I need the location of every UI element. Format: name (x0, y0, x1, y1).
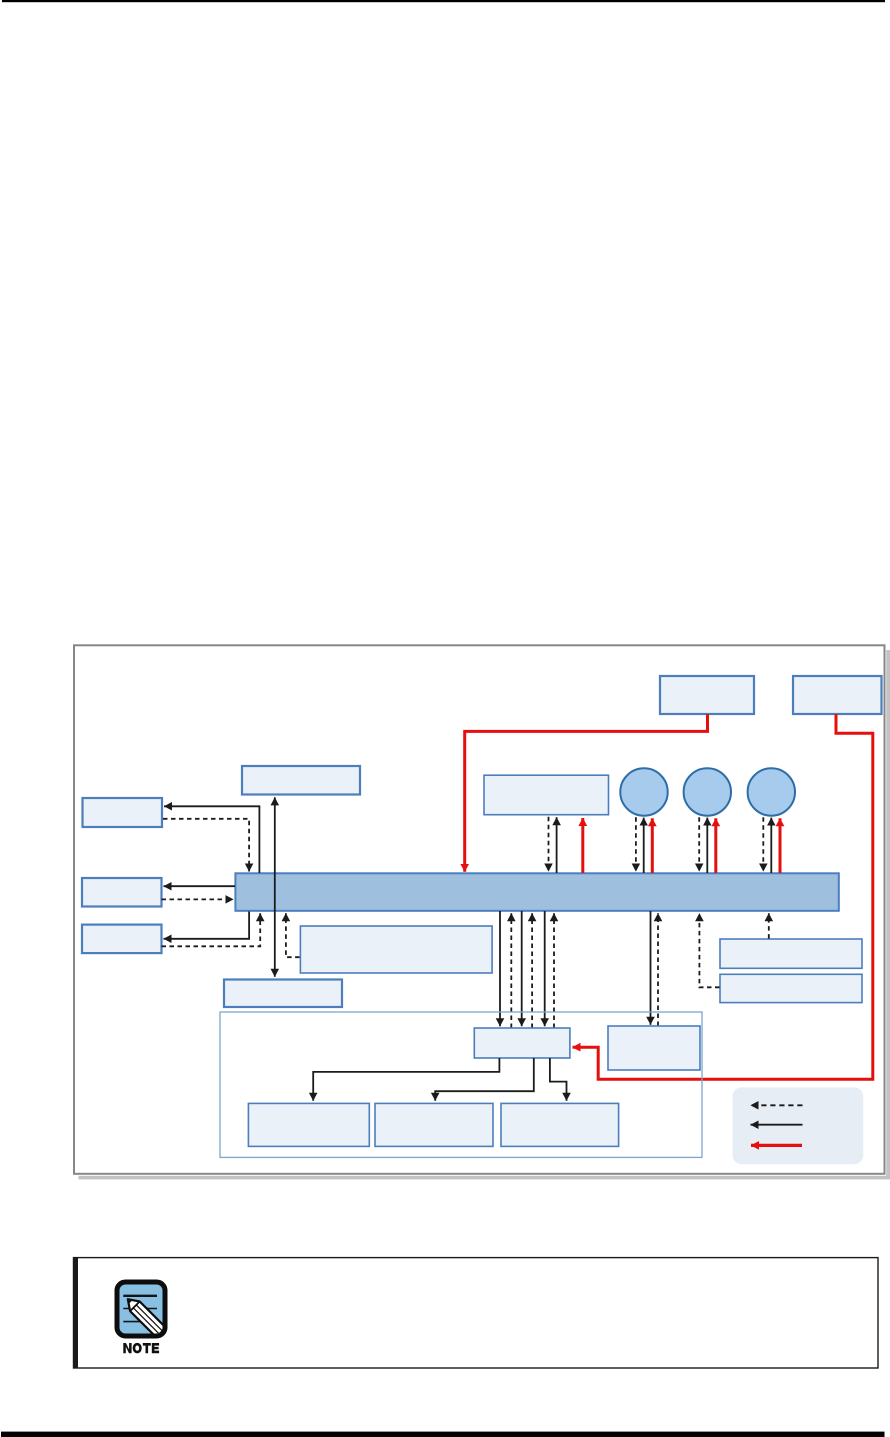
wire solid bus to C1 (643, 818, 645, 873)
box TC (upper center-left) (242, 766, 360, 795)
wire solid bus to M1 (556, 817, 558, 873)
wire red bus to C2 (714, 818, 717, 873)
wire solid bus to L3 (164, 912, 250, 939)
box M1 (above bus) (484, 775, 609, 815)
wire solid bus to L1 (164, 806, 259, 873)
note icon pad (117, 1282, 165, 1336)
box BA (bottom) (248, 1103, 369, 1146)
wire dashed RB to bus (657, 913, 659, 1026)
wire solid bus to SB 1 (499, 911, 501, 1026)
note icon frame (117, 1282, 165, 1336)
note label (123, 1343, 159, 1353)
note box left bar (73, 1257, 78, 1368)
box T2 (top right) (793, 676, 882, 714)
legend panel (733, 1087, 864, 1164)
bus bar (235, 873, 838, 911)
wire SB to BC (550, 1058, 567, 1101)
note icon ruled lines (123, 1295, 157, 1297)
circle C1 (620, 768, 667, 815)
note icon pencil (128, 1299, 166, 1337)
diagram frame shadow (886, 650, 890, 1179)
red wire from T1 to bus (465, 714, 708, 872)
wire red bus to C1 (651, 818, 654, 873)
group box (220, 1012, 702, 1157)
box L3 (left) (82, 925, 162, 954)
box T1 (top) (660, 676, 754, 714)
red wire from T2 to processor box (573, 714, 873, 1079)
note box (74, 1258, 879, 1368)
wire dashed C2 to bus (698, 817, 700, 871)
diagram frame (74, 645, 885, 1174)
wire SB to BB (435, 1058, 534, 1101)
wire solid bus to L2 (164, 885, 236, 887)
circle C3 (748, 768, 795, 815)
box R1 (right of bus) (720, 939, 862, 968)
wire dashed R2 to bus (699, 913, 719, 987)
wire dashed SB to bus 1 (510, 913, 512, 1028)
wire solid bus to SB 2 (521, 911, 523, 1026)
box M2 (below bus wide) (300, 926, 492, 973)
box L2 (left) (82, 878, 162, 907)
bottom rule (1, 1432, 885, 1437)
wire bidirectional TC to LB (274, 797, 276, 977)
box RB (608, 1026, 700, 1070)
wire dashed SB to bus 2 (531, 913, 533, 1028)
wire dashed M1 to bus (548, 817, 550, 872)
wire dashed R1 to bus (768, 913, 770, 938)
box BC (bottom) (501, 1103, 619, 1146)
wire dashed C1 to bus (635, 817, 637, 871)
wire solid bus to C3 (770, 818, 772, 873)
box SB (controller) (474, 1028, 570, 1058)
legend dashed arrow (751, 1104, 803, 1106)
box LB (below-left) (224, 980, 342, 1008)
wire solid bus to RB (650, 911, 652, 1025)
wire dashed L3 to bus (162, 913, 261, 946)
circle C2 (684, 768, 731, 815)
wire dashed C3 to bus (762, 817, 764, 871)
wire dashed SB to bus 3 (553, 913, 555, 1028)
wire dashed L1 to bus (163, 819, 249, 872)
box L1 (left) (83, 798, 163, 827)
legend red arrow (751, 1144, 802, 1147)
wire solid bus to C2 (706, 818, 708, 873)
box BB (bottom) (375, 1103, 493, 1146)
top rule (2, 0, 885, 2)
wire SB to BA (313, 1058, 499, 1101)
box R2 (right of bus) (720, 974, 862, 1002)
wire red bus to C3 (779, 818, 782, 873)
wire red bus to M1 (581, 818, 584, 873)
wire solid bus to SB 3 (544, 911, 546, 1026)
wire dashed L2 to bus (162, 898, 234, 900)
wire dashed M2 to bus (286, 913, 300, 957)
legend solid arrow (751, 1124, 803, 1126)
